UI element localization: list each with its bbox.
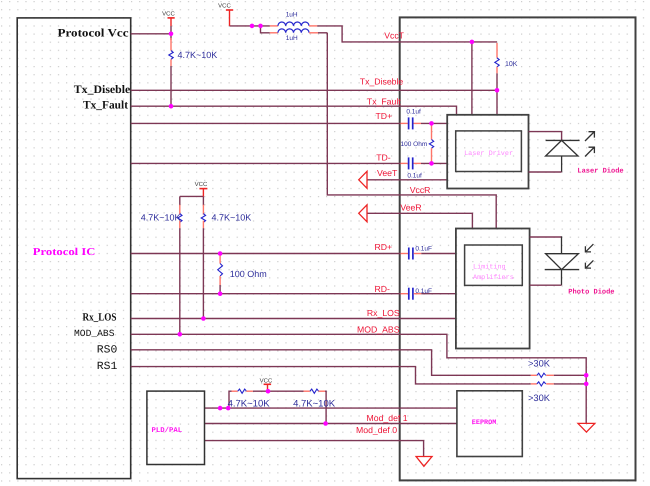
inductor L2 1uH [270, 29, 318, 42]
wire Protocol Vcc [131, 33, 171, 35]
wire 10K to Tx_Diseble and laser driver [496, 73, 498, 115]
resistor R5 4.7K~10K PLD right [293, 389, 336, 409]
resistor 10K [495, 43, 518, 73]
svg-text:100 Ohm: 100 Ohm [401, 141, 428, 148]
resistor 100 Ohm TD termination [401, 123, 434, 163]
svg-text:MOD_ABS: MOD_ABS [74, 328, 115, 339]
svg-text:EEPROM: EEPROM [472, 419, 496, 427]
svg-text:VccR: VccR [410, 185, 431, 195]
node Tx_Diseble pull-up [495, 88, 500, 93]
laser driver inner box [456, 131, 522, 172]
svg-text:Tx_Diseble: Tx_Diseble [74, 84, 131, 96]
svg-text:0.1uF: 0.1uF [415, 288, 432, 295]
svg-text:VCC: VCC [162, 11, 175, 18]
module box (transceiver) [400, 17, 636, 480]
node RD- term [218, 291, 223, 296]
inductor L1 1uH [270, 12, 317, 26]
power port VCC V3 [195, 181, 208, 197]
svg-text:RS0: RS0 [97, 345, 118, 357]
ground right [578, 423, 595, 432]
wire RS0 [131, 350, 531, 376]
wire Tx_Fault [131, 106, 457, 115]
node Mod_def 1 pull-up [323, 421, 328, 426]
photo diode D2 [545, 244, 594, 270]
svg-text:VccT: VccT [384, 31, 404, 41]
svg-text:Limiting: Limiting [473, 263, 506, 271]
wire RS1 [131, 367, 531, 384]
capacitor C2 0.1uf TD- [401, 157, 423, 179]
limiting amplifier inner box [465, 245, 523, 285]
svg-text:Photo Diode: Photo Diode [568, 288, 614, 297]
svg-text:Tx_Diseble: Tx_Diseble [360, 77, 404, 87]
node RS0 30K [584, 373, 589, 378]
power port VCC V1 [162, 11, 175, 27]
power port arrow VeeT [359, 171, 367, 188]
node Tx_Fault pull-up [169, 104, 174, 109]
svg-text:VCC: VCC [218, 2, 231, 9]
wire VeeT [367, 179, 447, 181]
svg-text:Tx_Fault: Tx_Fault [83, 100, 128, 112]
svg-text:1uH: 1uH [286, 12, 298, 19]
svg-text:0.1uf: 0.1uf [407, 173, 422, 180]
svg-text:Laser Diode: Laser Diode [577, 167, 623, 176]
wire RD- [131, 293, 401, 295]
power port VCC V2 [218, 2, 233, 26]
svg-text:100 Ohm: 100 Ohm [230, 269, 267, 279]
node Protocol Vcc / VCC [169, 32, 174, 37]
wire RD+ [131, 253, 401, 255]
svg-text:VCC: VCC [260, 378, 273, 385]
wire VeeR [367, 213, 472, 228]
svg-text:4.7K~10K: 4.7K~10K [293, 399, 336, 410]
wire Rx_LOS [131, 318, 456, 320]
wire pull-up rail PLD [229, 391, 232, 408]
svg-text:>30K: >30K [528, 359, 551, 369]
svg-text:VCC: VCC [195, 181, 208, 188]
resistor R7 >30K lower [528, 382, 554, 403]
svg-text:Mod_def 0: Mod_def 0 [356, 425, 397, 435]
svg-text:TD+: TD+ [376, 111, 393, 121]
svg-text:Protocol IC: Protocol IC [33, 247, 96, 258]
wire inductor L2 branch [261, 26, 270, 33]
power port VCC V4 [260, 378, 273, 392]
resistor R2 4.7K~10K left [141, 205, 182, 228]
capacitor C4 0.1uF RD- [401, 288, 432, 300]
wire EEPROM data [205, 407, 457, 409]
wire Mod_def 0 [205, 441, 424, 457]
resistor 100 Ohm RD termination [218, 254, 267, 294]
svg-text:PLD/PAL: PLD/PAL [152, 426, 183, 435]
svg-text:4.7K~10K: 4.7K~10K [141, 213, 181, 223]
wire TD- [131, 162, 401, 164]
svg-text:Amplifiers: Amplifiers [473, 274, 514, 282]
wire TD+ [131, 122, 401, 124]
svg-text:RD+: RD+ [375, 242, 393, 252]
node RD+ term [218, 251, 223, 256]
svg-text:RD-: RD- [375, 284, 391, 294]
wire laser diode anode [529, 132, 562, 141]
node EEPROM data b [226, 406, 231, 411]
svg-text:TD-: TD- [376, 152, 391, 162]
svg-text:Mod_def 1: Mod_def 1 [367, 413, 408, 423]
resistor R1 4.7K~10K [169, 38, 217, 66]
EEPROM box U4 [457, 391, 522, 457]
svg-text:RS1: RS1 [97, 361, 118, 373]
wire pull-up pair branch [180, 195, 204, 197]
svg-text:0.1uf: 0.1uf [406, 109, 421, 116]
svg-text:4.7K~10K: 4.7K~10K [178, 50, 218, 60]
power port arrow VeeR [359, 205, 367, 222]
wire photo diode anode [561, 270, 563, 286]
capacitor C1 0.1uf TD+ [401, 109, 422, 130]
node VCC PLD rail [266, 389, 271, 394]
node L rail a [250, 24, 255, 29]
svg-text:4.7K~10K: 4.7K~10K [212, 213, 252, 223]
svg-text:4.7K~10K: 4.7K~10K [228, 399, 271, 410]
limiting amplifier box U3 [456, 229, 530, 349]
capacitor C3 0.1uF RD+ [401, 246, 432, 260]
node MOD_ABS pull-up [178, 332, 183, 337]
node RS1 30K [584, 382, 589, 387]
wire VccT rail [230, 25, 270, 27]
svg-text:0.1uF: 0.1uF [415, 246, 432, 253]
wire Tx_Diseble [131, 89, 497, 91]
laser diode D1 [546, 132, 595, 157]
svg-text:Tx_Fault: Tx_Fault [367, 97, 401, 107]
resistor R4 4.7K~10K PLD left [228, 389, 271, 409]
svg-text:1uH: 1uH [286, 35, 298, 42]
wire R1 pull-up vertical [170, 26, 172, 40]
node VccT [470, 40, 475, 45]
svg-text:>30K: >30K [528, 393, 551, 403]
wire R3 to Rx_LOS [202, 228, 204, 318]
node TD- term [429, 161, 434, 166]
laser driver box U2 [447, 115, 528, 189]
wire laser diode cathode [561, 156, 563, 172]
svg-text:VeeR: VeeR [400, 203, 421, 213]
ground Mod_def0 [416, 457, 432, 467]
wire R2 to MOD_ABS [179, 228, 181, 334]
wire Mod_def 1 [205, 423, 457, 425]
svg-text:10K: 10K [505, 61, 518, 68]
resistor R6 >30K upper [528, 359, 554, 378]
wire photo diode cathode [530, 236, 562, 238]
wire VccT into laser driver [471, 42, 473, 115]
svg-text:Rx_LOS: Rx_LOS [83, 311, 117, 323]
resistor R3 4.7K~10K right [201, 205, 251, 228]
wire MOD_ABS [131, 334, 587, 423]
node Rx_LOS pull-up [201, 316, 206, 321]
node EEPROM data a [218, 406, 223, 411]
svg-text:Rx_LOS: Rx_LOS [367, 308, 400, 318]
svg-text:Laser Driver: Laser Driver [464, 150, 513, 158]
PLD/PAL box U5 [147, 391, 205, 464]
node TD+ term [429, 121, 434, 126]
svg-text:Protocol Vcc: Protocol Vcc [58, 27, 129, 39]
node L rail b [258, 24, 263, 29]
wire VccR rail [327, 33, 496, 229]
protocol IC box U1 [17, 18, 131, 479]
svg-text:VeeT: VeeT [377, 168, 398, 178]
svg-text:MOD_ABS: MOD_ABS [357, 325, 400, 335]
